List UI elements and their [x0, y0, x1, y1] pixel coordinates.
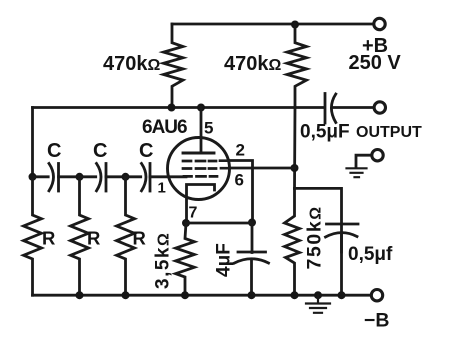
resistor R3: [117, 177, 135, 295]
terminal chassis ground (near output): [372, 150, 383, 161]
wire ground stub: [356, 155, 372, 167]
svg-text:C: C: [93, 140, 107, 162]
capacitor 0,5uF bypass (curved plate): [326, 233, 358, 237]
node suppressor-cathode tie: [248, 219, 256, 227]
terminal -B: [371, 290, 382, 301]
capacitor 4uF (curved plate): [235, 259, 269, 263]
terminal OUTPUT: [374, 102, 385, 113]
wire cathode to cap: [186, 222, 252, 225]
svg-text:−B: −B: [364, 310, 389, 332]
svg-text:6AU6: 6AU6: [142, 117, 187, 138]
tube U1 6AU6 envelope: [168, 138, 230, 200]
capacitor C2 (curved plate): [97, 164, 102, 191]
tube plate lead pin5: [200, 108, 203, 154]
svg-text:C: C: [47, 140, 61, 162]
svg-text:7: 7: [189, 205, 198, 222]
node rail R3: [122, 291, 130, 299]
capacitor C3 (straight plate): [149, 164, 152, 192]
svg-text:5: 5: [204, 119, 213, 138]
resistor R1 (on left border): [24, 177, 42, 295]
capacitor C3 (curved plate): [142, 164, 147, 191]
ground symbol (near output): [347, 168, 367, 177]
resistor 470k #1: [164, 24, 184, 108]
svg-text:470kΩ: 470kΩ: [224, 53, 282, 75]
terminal +B: [374, 18, 385, 29]
node rail 750k: [291, 291, 299, 299]
svg-text:470kΩ: 470kΩ: [103, 53, 161, 75]
node ladder left: [29, 173, 37, 181]
node rail 0,5uF: [338, 291, 346, 299]
wire screen bypass branch: [295, 188, 342, 252]
wire top rail B+: [172, 23, 373, 26]
resistor R2: [71, 177, 89, 295]
node ladder R3: [122, 173, 130, 181]
node rail 4uF: [248, 291, 256, 299]
wire left border: [31, 108, 34, 177]
wire bottom rail: [33, 294, 371, 297]
capacitor 0,5uF bypass (top plate): [327, 223, 359, 226]
capacitor C1 (curved plate): [49, 164, 54, 191]
capacitor 4uF lead: [251, 223, 254, 253]
svg-text:R: R: [42, 227, 55, 248]
wire plate line: [33, 106, 325, 109]
tube cathode: [187, 185, 215, 224]
resistor 750k: [285, 188, 300, 295]
svg-text:OUTPUT: OUTPUT: [356, 124, 422, 141]
node ladder R2: [76, 173, 84, 181]
svg-text:2: 2: [236, 141, 245, 160]
capacitor 4uF (top plate): [238, 251, 266, 254]
svg-text:1: 1: [158, 180, 166, 197]
wire suppressor pin2: [229, 161, 253, 223]
capacitor 0,5uF output (curved plate): [331, 94, 335, 123]
svg-text:6: 6: [235, 171, 244, 190]
resistor 3,5k cathode: [176, 223, 195, 295]
wire screen pin6: [230, 167, 295, 170]
node rail ground: [314, 291, 322, 299]
tube grid row3 (control): [184, 175, 217, 178]
wire output lead: [334, 106, 374, 109]
wire C1 to node: [59, 175, 80, 178]
tube grid row1 (suppressor): [183, 159, 229, 162]
node pin6 junction: [291, 164, 299, 172]
wire ladder segment 2: [80, 175, 96, 178]
svg-text:250 V: 250 V: [349, 52, 402, 74]
capacitor C2 (straight plate): [105, 164, 108, 192]
svg-text:R: R: [87, 227, 100, 248]
wire 4uF bottom lead: [250, 259, 253, 295]
wire bypass cap lead: [340, 233, 343, 295]
capacitor C1 (straight plate): [57, 164, 60, 192]
node plate lead: [197, 104, 205, 112]
node rail R2: [76, 291, 84, 299]
node resistor1 bottom: [168, 104, 176, 112]
wire ladder segment 3: [126, 175, 141, 178]
svg-text:R: R: [133, 227, 146, 248]
wire ladder segment 1: [33, 175, 49, 178]
resistor 470k #2 (top lead): [287, 24, 307, 108]
svg-text:750kΩ: 750kΩ: [304, 205, 326, 269]
svg-text:3,5kΩ: 3,5kΩ: [153, 232, 174, 289]
node rail 3,5k: [181, 291, 189, 299]
node cathode pin7: [182, 219, 190, 227]
wire screen line (x=294.5 vertical from plate line to pin 6 node): [293, 108, 296, 189]
capacitor 0,5uF output (left plate): [324, 94, 327, 124]
svg-text:4μF: 4μF: [214, 243, 235, 277]
wire C2 to node: [106, 175, 126, 178]
tube plate bar: [183, 152, 214, 155]
svg-text:0,5μf: 0,5μf: [348, 244, 393, 265]
ground symbol (bottom rail): [306, 295, 330, 313]
svg-text:0,5μF: 0,5μF: [300, 122, 350, 143]
tube grid row2 (screen): [183, 167, 230, 170]
node top rail junction: [291, 21, 299, 29]
svg-text:C: C: [139, 140, 153, 162]
wire grid pin1: [150, 175, 186, 178]
